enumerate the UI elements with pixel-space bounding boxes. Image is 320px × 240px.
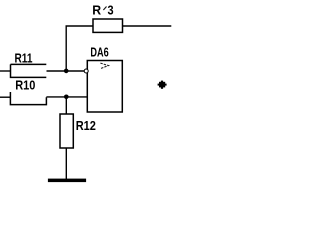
svg-text:R12: R12 [76, 118, 96, 133]
ground bar [48, 179, 86, 183]
resistor R13 body [93, 19, 123, 32]
wire: R10 left lead [0, 96, 10, 98]
op-amp inverting input bubble [84, 69, 88, 73]
wire: R13 left lead down to node A [66, 26, 93, 71]
resistor R11 body (open right side) [11, 64, 47, 77]
svg-text:R10: R10 [15, 78, 35, 92]
node B junction dot [64, 95, 69, 100]
op-amp amplification chevron [100, 63, 108, 69]
svg-text:R: R [92, 4, 101, 18]
wire: R10 right lead to op-amp non-inverting input [46, 96, 87, 98]
wire: node B down to R12 [65, 97, 67, 114]
svg-text:3: 3 [108, 4, 114, 18]
op-amp DA6 body [87, 61, 122, 113]
wire: R13 right lead [123, 25, 172, 27]
resistor R12 body [60, 114, 73, 148]
node A junction dot [64, 69, 69, 74]
wire: R11 left lead [0, 70, 11, 72]
star marker [158, 81, 167, 89]
svg-text:DA6: DA6 [90, 45, 108, 60]
svg-text:R11: R11 [15, 52, 33, 66]
wire: R11 right lead to op-amp inverting input [47, 70, 85, 72]
wire: R12 bottom lead to ground [65, 148, 67, 179]
resistor R13 label [92, 4, 113, 18]
resistor R10 body (top edge hidden) [10, 92, 46, 105]
